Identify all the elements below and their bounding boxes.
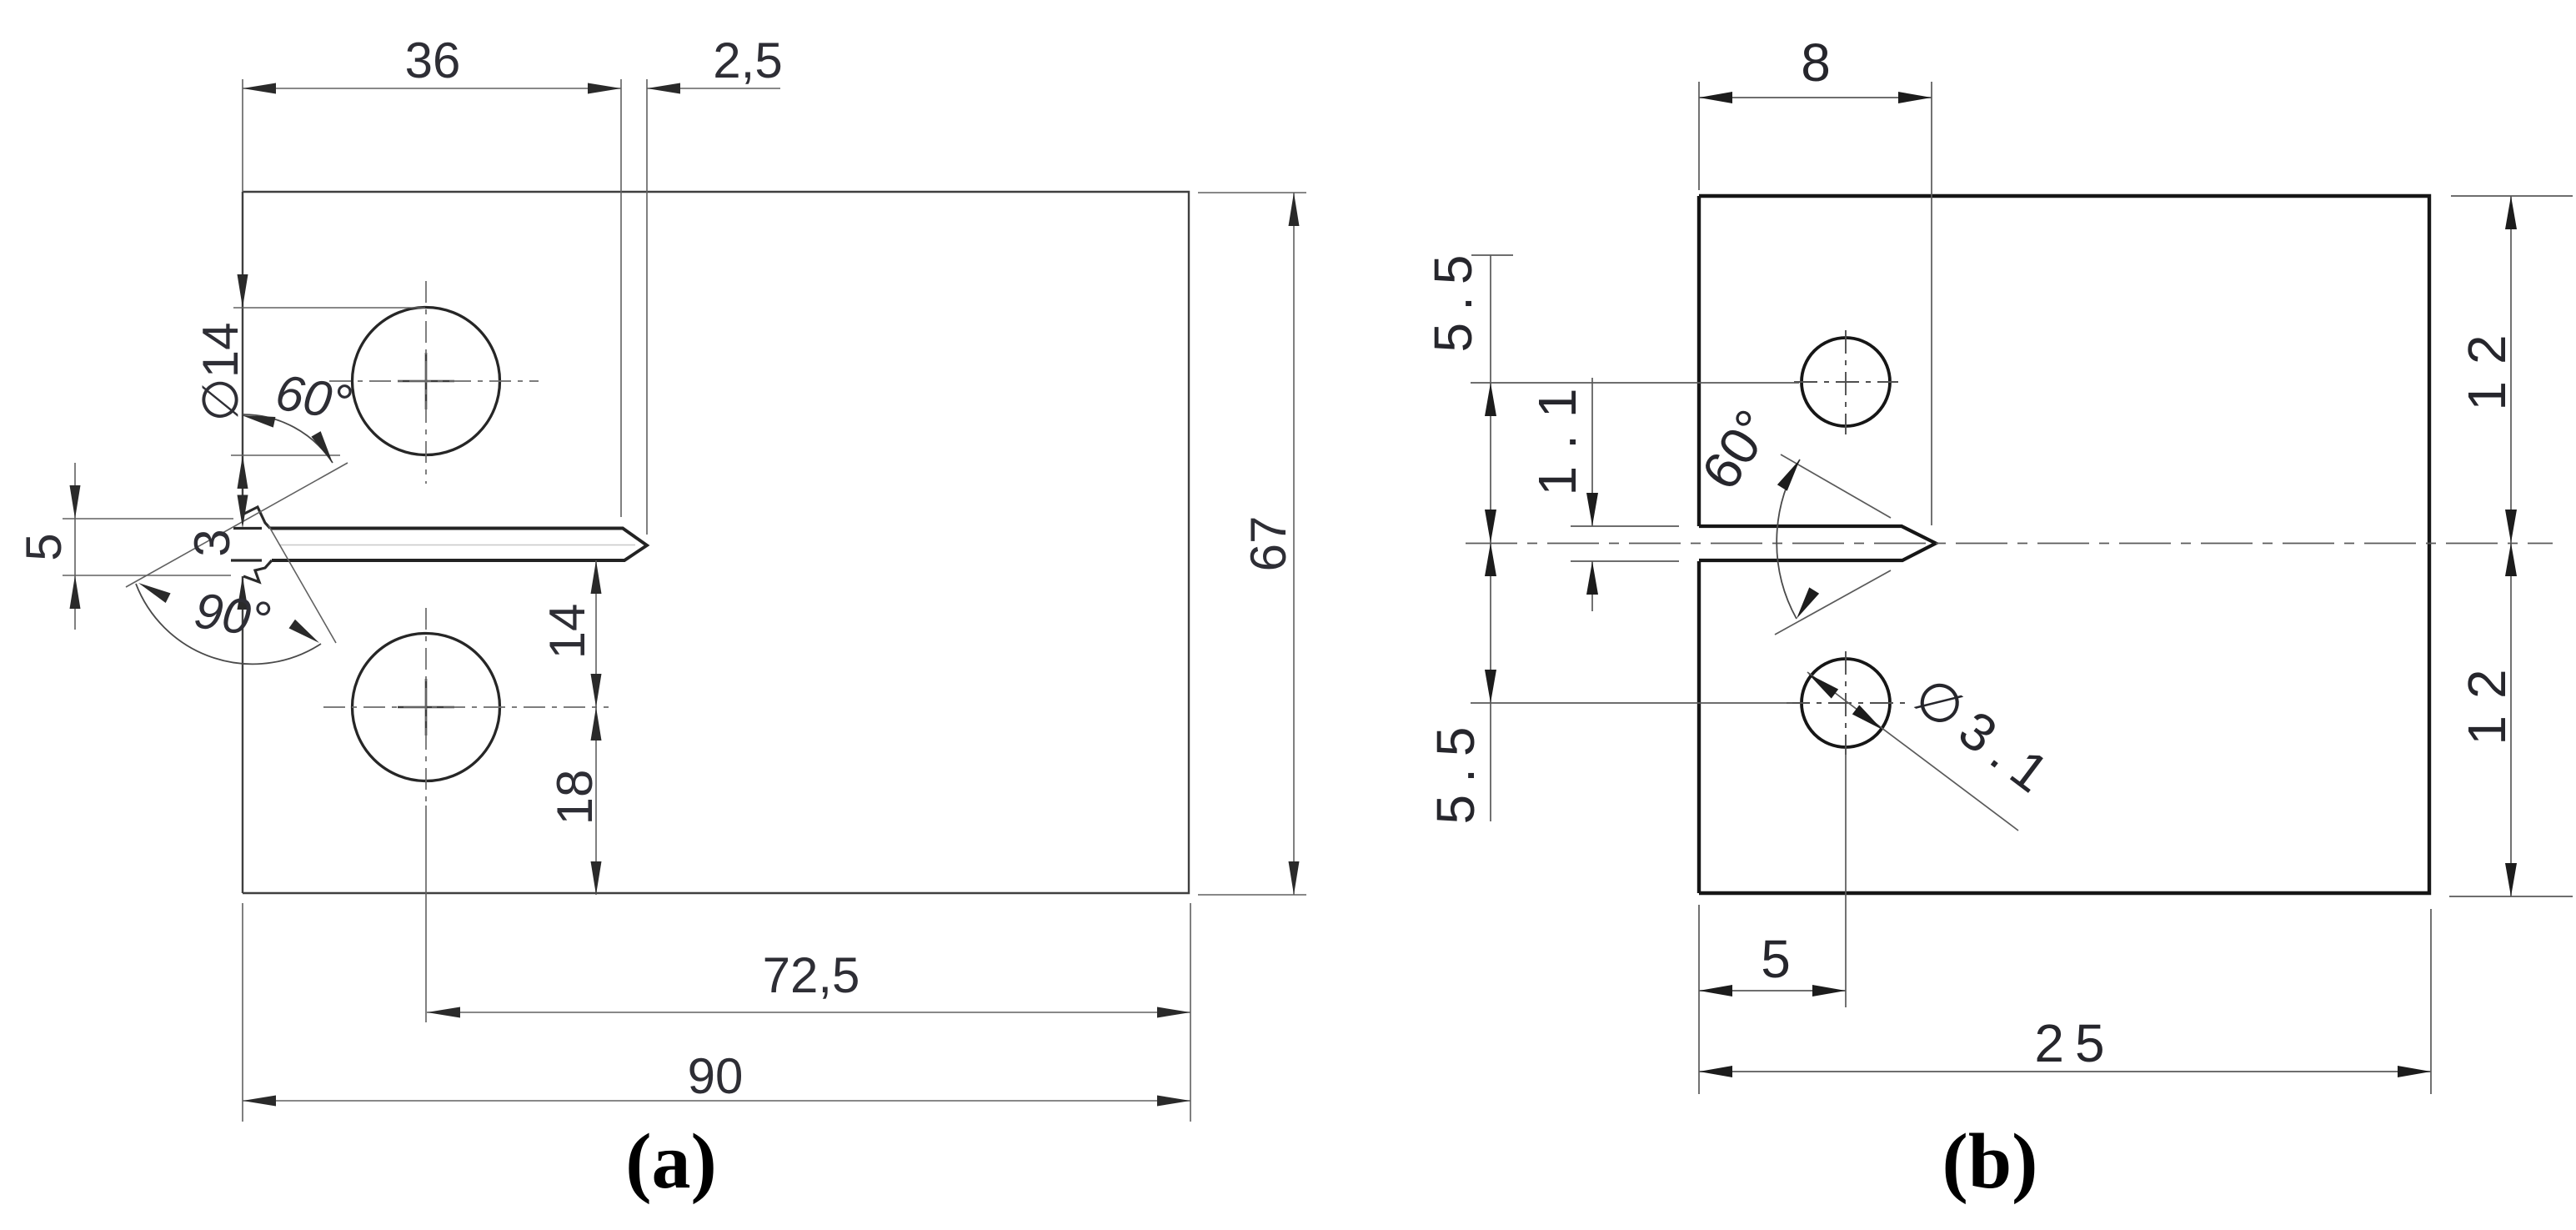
72,5 / 90 ext — [1190, 903, 1191, 1122]
dim line 36 — [243, 88, 621, 89]
svg-text:36: 36 — [405, 33, 461, 88]
2,5 — [647, 83, 680, 94]
67 ext + dim — [1198, 192, 1306, 193]
60 arc arrows — [241, 410, 276, 428]
arrowheads (a) — [70, 83, 1300, 1107]
svg-text:∅14: ∅14 — [193, 322, 248, 421]
12 upper — [2451, 195, 2573, 197]
svg-text:12: 12 — [2457, 318, 2517, 410]
notch slot (a) — [270, 529, 647, 561]
svg-text:14: 14 — [539, 604, 595, 660]
5 — [1699, 985, 1732, 997]
extension line below lower hole to 72,5 dim — [425, 806, 427, 1022]
svg-text:5.5: 5.5 — [1423, 243, 1483, 353]
25 dim — [2430, 909, 2432, 1094]
3 — [238, 495, 248, 529]
90 deg flank line — [268, 525, 336, 643]
5 — [70, 485, 81, 519]
ext notch verticals — [620, 79, 622, 517]
90 — [243, 1096, 276, 1107]
60 arc arrows — [1777, 456, 1805, 490]
90 arc arrows — [136, 578, 171, 603]
1.1 — [1586, 493, 1598, 526]
hole lower (b) — [1802, 659, 1890, 747]
5 dim — [74, 463, 76, 630]
svg-text:1.1: 1.1 — [1527, 372, 1587, 496]
dia3.1 leader arrows — [1805, 669, 1838, 698]
notch slot faint centerline — [279, 545, 635, 546]
centerlines upper hole (dash-dot) — [329, 281, 539, 484]
svg-text:90°: 90° — [191, 582, 273, 648]
svg-text:25: 25 — [2034, 1013, 2115, 1073]
12 lower — [2505, 543, 2517, 576]
1.1 dim — [1591, 378, 1593, 526]
hole upper (b) — [1802, 338, 1890, 426]
14 / 18 dim line — [595, 560, 597, 895]
svg-text:60°: 60° — [272, 364, 355, 431]
90 deg arc — [136, 584, 321, 664]
svg-text:(a): (a) — [625, 1118, 717, 1205]
8 dim — [1698, 82, 1700, 190]
svg-text:5: 5 — [16, 533, 72, 560]
svg-text:3: 3 — [184, 529, 240, 556]
texts (b) — [1423, 33, 2517, 1205]
ext below lower hole for 5 dim — [1845, 755, 1847, 1007]
60 deg flanks — [1781, 454, 1891, 518]
svg-text:67: 67 — [1240, 516, 1296, 572]
notch slot (b) — [1699, 526, 1936, 560]
dia 14 vertical — [238, 274, 248, 308]
thin lines (b) — [1471, 82, 2573, 1094]
dim line 2,5 — [647, 88, 780, 89]
specimen (b) outline — [1699, 196, 2429, 893]
5.5 upper dim — [1490, 255, 1491, 543]
svg-text:18: 18 — [547, 770, 603, 826]
thin extension / dimension lines (a) — [63, 79, 1306, 1122]
svg-text:8: 8 — [1801, 33, 1831, 93]
dia14 ext lines — [233, 307, 425, 309]
60 deg arc (b) — [1777, 459, 1800, 619]
svg-text:90: 90 — [688, 1048, 744, 1104]
texts (a) — [16, 33, 1296, 1205]
67 — [1289, 193, 1300, 226]
"3" reference short heavy lines — [231, 529, 262, 561]
5.5 lower — [1485, 543, 1496, 576]
center cross upper hole — [398, 353, 454, 409]
centerlines lower hole (dash-dot) — [323, 608, 609, 806]
specimen (a) outline — [243, 192, 1189, 893]
72,5 — [427, 1007, 460, 1018]
14 — [591, 560, 602, 594]
dia 3.1 leader — [1807, 672, 2018, 831]
svg-text:5.5: 5.5 — [1426, 715, 1486, 825]
18 — [591, 707, 602, 741]
dim 72,5 — [427, 1012, 1190, 1013]
svg-text:12: 12 — [2457, 652, 2517, 745]
notch mouth zigzag — [243, 507, 272, 582]
svg-text:5: 5 — [1761, 929, 1791, 989]
12 lower — [2449, 896, 2573, 897]
hole upper (a) — [353, 308, 500, 455]
centerline (b) dash-dot — [1466, 543, 2553, 545]
5 dim — [1698, 905, 1700, 1094]
svg-text:2,5: 2,5 — [713, 33, 782, 88]
36 — [243, 83, 276, 94]
25 — [1699, 1066, 1732, 1077]
60 deg arc — [243, 414, 333, 463]
svg-text:(b): (b) — [1942, 1118, 2038, 1205]
12 upper — [2505, 196, 2517, 229]
svg-text:72,5: 72,5 — [763, 947, 860, 1003]
ext left edge above — [242, 79, 243, 192]
hole lower (a) — [353, 634, 500, 781]
center cross lower hole — [398, 679, 454, 735]
centerlines upper hole (b) — [1794, 330, 1898, 434]
centerlines lower hole (b) — [1787, 651, 1905, 755]
8 — [1699, 92, 1732, 103]
arrowheads (b) — [1485, 92, 2517, 1077]
5.5 lower dim — [1490, 543, 1491, 821]
5.5 upper — [1485, 383, 1496, 416]
60 deg flank line — [126, 463, 348, 587]
dim 90 — [243, 1100, 1190, 1102]
